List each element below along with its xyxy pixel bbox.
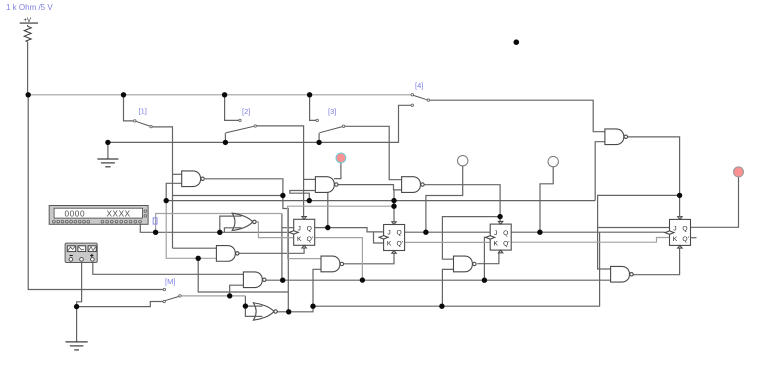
wire NAND U2 output to FF4 preset	[627, 137, 680, 216]
wire switch2 lower post	[224, 133, 226, 142]
wire FF2 Q to FF3 J	[405, 231, 491, 233]
wire node L to node M	[289, 306, 313, 312]
svg-text:+V: +V	[24, 18, 32, 24]
NAND gate D2	[243, 272, 262, 288]
power +V terminal	[20, 18, 38, 24]
wire NAND A top input stub	[304, 178, 316, 180]
svg-text:K: K	[673, 236, 678, 243]
label tag blue bracket below display	[153, 218, 157, 224]
node S2 lower	[223, 140, 228, 145]
ground GND2	[66, 342, 88, 350]
wire node R link to D2 bottom input	[230, 285, 244, 296]
node y280 FF3 clock tap	[482, 278, 487, 283]
NAND gate G2	[216, 246, 235, 262]
wire FF3 Qbar to FF4 K	[511, 238, 669, 243]
wire net142 bus	[108, 105, 411, 142]
node LED D4 tap	[537, 230, 542, 235]
node y280 D2 tap	[280, 278, 285, 283]
svg-text:1 k Ohm /5 V: 1 k Ohm /5 V	[6, 3, 53, 12]
node y280 FF1 Qbar tap	[360, 277, 365, 282]
NAND gate D	[454, 256, 473, 272]
node A	[280, 193, 285, 198]
wire node Y to NOR2 top input	[220, 216, 235, 232]
wire FF3 Q to FF4 clock	[511, 231, 665, 233]
wire F2 bottom input from node S	[166, 183, 182, 200]
svg-text:Q': Q'	[503, 240, 509, 247]
LED D5 red indicator	[734, 167, 744, 177]
svg-text:0000: 0000	[65, 210, 86, 219]
resistor R1 1k zigzag	[24, 25, 31, 42]
svg-text:Q: Q	[682, 225, 687, 232]
svg-text:K: K	[387, 241, 392, 248]
wire NOR3 bottom input loop	[245, 306, 256, 316]
wire left rail to switchM upper contact	[28, 95, 163, 290]
NOR gate U5 inverter for FF1 K	[232, 213, 253, 230]
wire FF2 Qbar to FF3 K	[405, 241, 491, 243]
node rail S2 junction	[222, 92, 227, 97]
wire node 195 west branch to FF4 J and NAND U3 top input	[598, 195, 680, 269]
wire G2 output to FF1 clear	[239, 248, 305, 253]
switch SM blade	[163, 288, 181, 302]
svg-text:Q': Q'	[682, 236, 688, 243]
node rail S1 junction	[121, 92, 126, 97]
wire switch1 top post	[124, 95, 134, 121]
svg-text:K: K	[297, 236, 302, 243]
wire switch2 output to NAND A top input and FF1 preset	[257, 126, 304, 217]
wire switchM common run to node P	[181, 295, 245, 297]
node P inverter input	[243, 303, 248, 308]
node L inverter output	[286, 309, 291, 314]
switch S4 blade	[411, 94, 430, 107]
wire NOR3 input stubs overlay	[256, 305, 263, 307]
flip-flop FF1	[289, 217, 315, 248]
svg-text:[2]: [2]	[242, 107, 250, 116]
svg-text:J: J	[387, 230, 390, 237]
NAND gate F2	[182, 171, 201, 187]
svg-text:K: K	[494, 240, 499, 247]
wire NAND F2 output to node A column down to node L	[205, 179, 288, 312]
node G ground2 tie	[74, 304, 79, 309]
svg-text:J: J	[673, 225, 676, 232]
node W ground tie	[105, 140, 110, 145]
wire NAND U3 output to FF4 clear	[633, 248, 680, 275]
node T clock tap	[153, 230, 158, 235]
switch S1 blade	[134, 120, 153, 128]
NAND gate C	[321, 256, 340, 272]
wire node S to node A at y195.5	[173, 195, 283, 197]
wire clock net to FF1	[156, 231, 290, 233]
source block PS1	[65, 243, 97, 262]
flip-flop FF3	[486, 221, 512, 252]
wire y292 run node 198 to node L column	[198, 258, 288, 292]
wire FF1 J input	[282, 214, 294, 228]
wire NAND A bottom edge tap	[327, 192, 329, 227]
wire FF2 preset column	[393, 190, 395, 222]
wire switch2 top post	[225, 95, 239, 121]
wire node S south to G2 bottom input	[166, 201, 216, 259]
wire FF4 Qbar stub	[690, 237, 696, 239]
node floating marker	[514, 39, 520, 45]
node S on net200	[164, 198, 169, 203]
node FF1 Q tap	[325, 225, 330, 230]
wire FF2 JK tie link	[374, 232, 384, 243]
svg-text:[1]: [1]	[139, 107, 147, 116]
NAND gate U3	[611, 266, 630, 282]
node FF3 preset tap	[497, 214, 502, 219]
wire top supply rail	[28, 94, 412, 96]
node R on switchM net	[227, 293, 232, 298]
LED D2 red indicator	[336, 153, 346, 163]
wire NAND U2 bottom input from net200	[595, 142, 605, 201]
wire LED D4 probe stem	[540, 167, 553, 232]
wire switch1 output to gate F2 and node A column	[152, 127, 172, 248]
svg-text:J: J	[494, 230, 497, 237]
wire NOR2 output to FF1 K	[256, 222, 294, 238]
wire FF4 J input	[598, 227, 670, 229]
wire net200 long run	[166, 200, 595, 202]
wire F2 top input stub	[173, 173, 182, 175]
node 2 FF2 preset lower	[391, 204, 396, 209]
node 198 on G2 input	[196, 256, 201, 261]
svg-text:[4]: [4]	[415, 81, 423, 90]
wire NAND D bottom input from node N	[442, 269, 453, 306]
svg-text:Q': Q'	[307, 236, 313, 243]
node S3 lower	[316, 140, 321, 145]
wire NAND C output to FF2 clear	[343, 254, 394, 264]
node 1 FF2 preset upper	[391, 198, 396, 203]
wire LED D3 probe stem	[426, 166, 463, 232]
wire NAND D output to FF3 clear	[477, 253, 499, 264]
LED D3 white probe	[458, 156, 468, 166]
wire switch3 lower post	[318, 133, 320, 142]
wire node T riser y213 to FF1 J column	[156, 214, 282, 233]
node FF4 preset tap	[677, 193, 682, 198]
wire node P inverter tie	[245, 296, 256, 306]
wire node 2 west run y206 to NAND C top input	[288, 206, 394, 258]
NAND gate B	[402, 177, 421, 193]
node rail-left junction	[26, 92, 31, 97]
node N NAND D tap	[439, 304, 444, 309]
resistor R1 supply wire	[27, 42, 29, 95]
wire FF3 preset branch to NAND D top input	[442, 217, 500, 260]
NOR gate U6 inverter after switch M	[253, 303, 274, 320]
ground GND1	[97, 159, 118, 167]
svg-text:XXXX: XXXX	[107, 210, 131, 219]
wire node A extension to y280 rail	[281, 228, 283, 281]
wire switch3 top post	[310, 95, 316, 121]
display DS1 hex readout	[49, 206, 148, 225]
NAND gate A	[315, 177, 334, 193]
node B	[307, 198, 312, 203]
wire NOR3 output to node L	[277, 311, 289, 313]
wire D2 top input from source block	[93, 260, 244, 275]
wire ground1 stem	[107, 142, 109, 158]
wire node B jog to NAND A bottom input	[290, 191, 316, 201]
node LED D3 tap	[423, 230, 428, 235]
wire LED D2 anode	[334, 163, 341, 179]
node Y NOR2 tap	[217, 230, 222, 235]
wire y280 rail NAND D2 output to NAND U3 bottom input	[266, 279, 611, 281]
node M NAND C tap	[310, 304, 315, 309]
svg-text:Q: Q	[307, 225, 312, 232]
node rail S3 junction	[307, 92, 312, 97]
flip-flop FF2	[379, 222, 405, 253]
svg-text:Q': Q'	[397, 241, 403, 248]
wire FF3 clock from y280 rail	[484, 237, 490, 280]
wire display post to node T	[140, 224, 155, 232]
wire G2 top input	[173, 247, 217, 249]
wire y306 branch from FF4 clock net	[313, 232, 600, 306]
svg-text:Q: Q	[503, 230, 508, 237]
wire source block mid post to ground node G	[77, 260, 82, 307]
wire FF1 Qbar south to y280 rail	[315, 238, 363, 281]
LED D4 white probe	[548, 156, 558, 166]
flip-flop FF4	[665, 217, 691, 248]
wire node G to switchM lower contact	[77, 302, 163, 307]
switch S2 blade	[226, 119, 257, 133]
wire FF1 Q to FF2 J	[315, 228, 384, 232]
wire node Y jog to NOR2 bottom input	[224, 228, 234, 233]
switch S3 blade	[316, 119, 345, 133]
wire node M to NAND C bottom input	[313, 269, 321, 306]
wire NAND B output to FF3 preset	[424, 185, 500, 222]
svg-text:[3]: [3]	[328, 107, 336, 116]
svg-text:[M]: [M]	[165, 277, 175, 286]
wire FF4 Q to LED D5	[690, 177, 738, 227]
wire switch4 output to NAND U2 top input	[430, 100, 605, 132]
wire switch3 output to NAND B top input	[345, 126, 402, 179]
svg-text:Q: Q	[397, 230, 402, 237]
NAND gate U2	[605, 129, 624, 145]
wire NAND A output to NAND B bottom input	[337, 185, 401, 190]
wire NOR2 input stubs overlay	[235, 215, 242, 217]
svg-text:J: J	[298, 225, 301, 232]
wire ground2 stem	[76, 307, 78, 342]
